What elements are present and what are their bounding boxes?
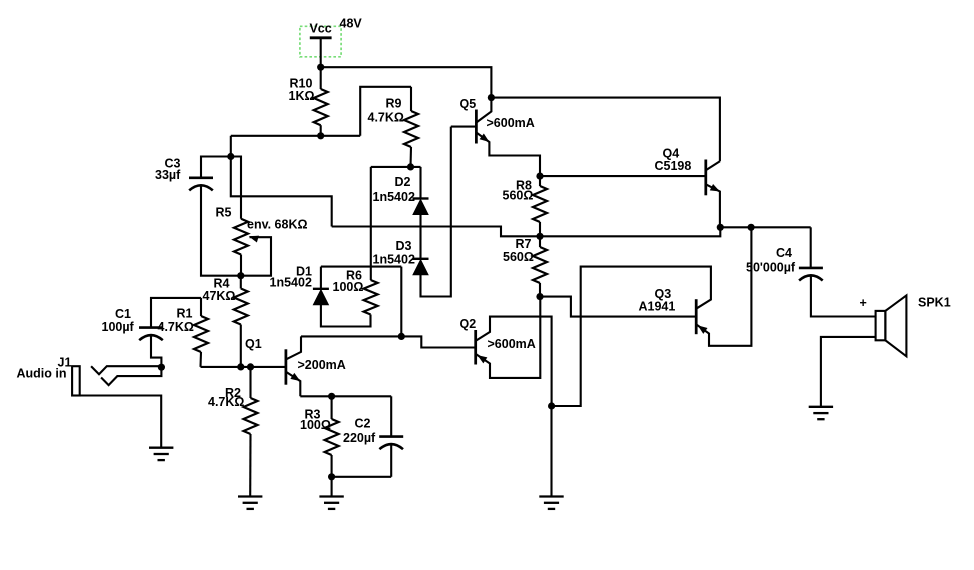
- transistor Q3 collector: [552, 267, 711, 406]
- resistor R2: [244, 367, 258, 497]
- svg-text:A1941: A1941: [639, 299, 676, 313]
- capacitor C3: [189, 178, 213, 191]
- node R4 bottom junction: [237, 363, 244, 370]
- node output junction C4 branch: [748, 224, 755, 231]
- svg-text:1n5402: 1n5402: [373, 252, 415, 266]
- speaker SPK1 plus label: [860, 296, 867, 310]
- svg-text:Q1: Q1: [245, 337, 262, 351]
- svg-text:D3: D3: [396, 239, 412, 253]
- transistor Q4 label: [655, 146, 692, 173]
- wire speaker return to ground: [821, 337, 876, 407]
- wire Q1 collector rail to Q2 base: [301, 336, 476, 347]
- power symbol Vcc (green dashed box): [300, 26, 341, 57]
- wire C1 to R1 link: [151, 298, 201, 328]
- capacitor C2: [379, 437, 403, 450]
- svg-text:R7: R7: [516, 237, 532, 251]
- node bias bottom junction: [398, 333, 405, 340]
- node collectors/ground junction: [548, 402, 555, 409]
- wire D1 bottom lead: [321, 305, 371, 327]
- transistor Q2 base bar: [474, 330, 477, 365]
- potentiometer R5 label: [216, 205, 232, 219]
- node R3 top junction: [328, 393, 335, 400]
- ground R3: [319, 497, 343, 509]
- wire D2 box top: [371, 166, 421, 168]
- node Vcc junction: [317, 64, 324, 71]
- svg-text:D2: D2: [395, 175, 411, 189]
- connector J1 tip contact: [91, 366, 161, 374]
- wire C1 bottom lead: [151, 335, 161, 367]
- wire chain bottom U to Q5 base column: [421, 127, 451, 297]
- svg-text:Q2: Q2: [460, 317, 477, 331]
- svg-text:>200mA: >200mA: [298, 358, 346, 372]
- svg-text:>600mA: >600mA: [487, 116, 535, 130]
- connector J1 switch contact: [101, 367, 161, 385]
- connector J1 audio in label: [17, 367, 67, 381]
- svg-text:Audio in: Audio in: [17, 367, 67, 381]
- wire output rail to C4: [720, 226, 810, 228]
- wire mid rail from bias node to output column: [332, 227, 721, 237]
- svg-text:R5: R5: [216, 205, 232, 219]
- node R5/R4 junction: [237, 272, 244, 279]
- wire jack sleeve to ground: [72, 396, 161, 448]
- wire rail Q5 collector to Q4 collector: [491, 98, 720, 162]
- resistor R6: [364, 280, 378, 315]
- resistor R4: [234, 276, 248, 367]
- capacitor C1 label: [102, 307, 135, 334]
- resistor R1 label: [158, 306, 194, 334]
- resistor R6 label: [333, 268, 364, 293]
- wire center ground column: [550, 406, 552, 497]
- transistor Q4 collector: [706, 161, 720, 170]
- wire C3 bottom lead: [201, 185, 241, 276]
- transistor Q1 label: [245, 337, 262, 351]
- node output junction Q4 emitter: [717, 224, 724, 231]
- transistor Q1 current label: [298, 358, 346, 372]
- capacitor C4 label: [746, 246, 796, 274]
- wire chain D2-D3: [419, 215, 421, 259]
- resistor R10 label: [289, 76, 315, 102]
- wire bias box top rail: [321, 266, 401, 268]
- transistor Q2 collector: [476, 317, 552, 406]
- wire Q4 base rail: [540, 175, 706, 177]
- node R2 top junction: [247, 363, 254, 370]
- node Q5 collector junction: [488, 94, 495, 101]
- connector J1 body: [72, 366, 80, 395]
- svg-text:C1: C1: [115, 307, 131, 321]
- diode D1: [313, 289, 329, 305]
- transistor Q2 label: [460, 317, 477, 331]
- connector J1 label: [58, 355, 72, 369]
- wire vertical x371 (D2 box left / R6 top feed): [370, 167, 372, 280]
- svg-text:env. 68KΩ: env. 68KΩ: [247, 218, 308, 232]
- svg-text:R1: R1: [177, 306, 193, 320]
- potentiometer R5 wiper: [241, 236, 271, 276]
- wire Q5 base: [451, 126, 477, 128]
- wire C2 top lead: [390, 396, 392, 436]
- ground R2: [238, 497, 262, 509]
- wire top rail to Q5 collector: [321, 67, 492, 97]
- svg-text:50'000µf: 50'000µf: [746, 260, 796, 274]
- wire C2 bottom lead: [390, 444, 392, 477]
- wire chain top: [419, 167, 421, 199]
- svg-text:47KΩ: 47KΩ: [203, 289, 236, 303]
- transistor Q5 current label: [487, 116, 535, 130]
- ground speaker: [809, 407, 833, 419]
- svg-text:R9: R9: [386, 97, 402, 111]
- resistor R10: [314, 67, 328, 136]
- diode D1 label: [270, 264, 313, 289]
- node R3 bottom junction: [328, 473, 335, 480]
- transistor Q4 base bar: [704, 160, 707, 196]
- diode D2: [413, 199, 429, 215]
- node R7 bottom junction: [536, 293, 543, 300]
- wire input rail to Q1 base: [201, 366, 286, 368]
- resistor R1: [194, 298, 208, 367]
- wire R3 ground lead: [331, 477, 333, 497]
- transistor Q1 collector: [286, 336, 301, 359]
- svg-text:48V: 48V: [340, 17, 363, 31]
- node R8 top junction: [536, 173, 543, 180]
- wire Q1 emitter node: [300, 395, 391, 397]
- node C3/R5 top junction: [227, 153, 234, 160]
- transistor Q5 emitter: [476, 133, 540, 177]
- node jack tip junction: [158, 364, 165, 371]
- resistor R3: [325, 396, 339, 477]
- wire C4 bottom lead to speaker: [811, 275, 876, 316]
- svg-text:C4: C4: [776, 246, 792, 260]
- svg-text:SPK1: SPK1: [918, 295, 951, 309]
- transistor Q2 emitter: [476, 297, 541, 378]
- speaker SPK1 label: [918, 295, 951, 309]
- svg-text:C5198: C5198: [655, 159, 692, 173]
- capacitor C2 label: [343, 417, 376, 446]
- svg-text:560Ω: 560Ω: [503, 189, 534, 203]
- resistor R7: [533, 236, 547, 296]
- resistor R9: [404, 87, 418, 167]
- node R8/R7 junction: [536, 233, 543, 240]
- ground center: [539, 497, 563, 509]
- transistor Q3 emitter: [696, 227, 751, 345]
- svg-text:220µf: 220µf: [343, 431, 376, 445]
- resistor R3 label: [300, 408, 331, 433]
- resistor R8 label: [503, 178, 534, 202]
- resistor R4 label: [203, 277, 236, 303]
- transistor Q3 base bar: [695, 299, 698, 334]
- ground jack: [149, 448, 173, 460]
- diode D3: [413, 259, 429, 275]
- transistor Q5 collector: [476, 98, 491, 123]
- Vcc supply bar: [310, 36, 332, 39]
- diode D2 label: [373, 175, 415, 204]
- svg-text:100µf: 100µf: [102, 320, 135, 334]
- diode D3 label: [373, 239, 415, 266]
- transistor Q1 emitter: [286, 372, 300, 397]
- wire Vcc stem: [320, 38, 322, 67]
- wire bias column to Q1 collector node: [400, 267, 402, 337]
- wire D1 top lead: [320, 267, 322, 289]
- transistor Q2 current label: [488, 337, 536, 351]
- wire jog to R9 top: [360, 87, 411, 136]
- capacitor C4: [799, 268, 823, 281]
- node R9 bottom junction: [407, 163, 414, 170]
- resistor R9 label: [368, 97, 404, 125]
- resistor R2 label: [208, 386, 244, 409]
- 48V label: [340, 17, 363, 31]
- svg-text:4.7KΩ: 4.7KΩ: [208, 395, 244, 409]
- capacitor C3 label: [155, 157, 181, 183]
- potentiometer R5 value label: [247, 218, 308, 232]
- Vcc label: [309, 21, 331, 35]
- wire C3 top lead: [201, 157, 231, 178]
- svg-text:1KΩ: 1KΩ: [289, 89, 315, 103]
- wire feed down from C3/R5 node to mid rail: [231, 157, 332, 227]
- svg-text:>600mA: >600mA: [488, 337, 536, 351]
- capacitor C1: [139, 328, 163, 341]
- wire C4 top lead: [810, 227, 812, 268]
- transistor Q4 emitter: [706, 184, 720, 227]
- svg-text:33µf: 33µf: [155, 168, 181, 182]
- transistor Q3 label: [639, 287, 676, 313]
- wire rail corner down to C3/R5 node: [230, 136, 232, 157]
- svg-text:1n5402: 1n5402: [373, 190, 415, 204]
- transistor Q1 base bar: [285, 349, 288, 384]
- svg-text:C2: C2: [355, 417, 371, 431]
- wire R3/C2 bottom link: [332, 476, 392, 478]
- wire jog R7 bottom to Q3 base: [540, 297, 696, 317]
- svg-text:4.7KΩ: 4.7KΩ: [368, 110, 404, 124]
- wire rail y136: [231, 135, 360, 137]
- svg-text:1n5402: 1n5402: [270, 276, 312, 290]
- resistor R7 label: [503, 237, 534, 264]
- transistor Q5 label: [460, 97, 477, 111]
- svg-text:Q5: Q5: [460, 97, 477, 111]
- resistor R8: [533, 176, 547, 236]
- transistor Q5 base bar: [475, 110, 478, 144]
- svg-text:100Ω: 100Ω: [333, 280, 364, 294]
- svg-text:560Ω: 560Ω: [503, 250, 534, 264]
- svg-text:Vcc: Vcc: [309, 21, 331, 35]
- node R10 bottom junction: [317, 132, 324, 139]
- potentiometer R5: [231, 157, 248, 276]
- speaker SPK1 body: [876, 295, 907, 356]
- svg-text:+: +: [860, 296, 867, 310]
